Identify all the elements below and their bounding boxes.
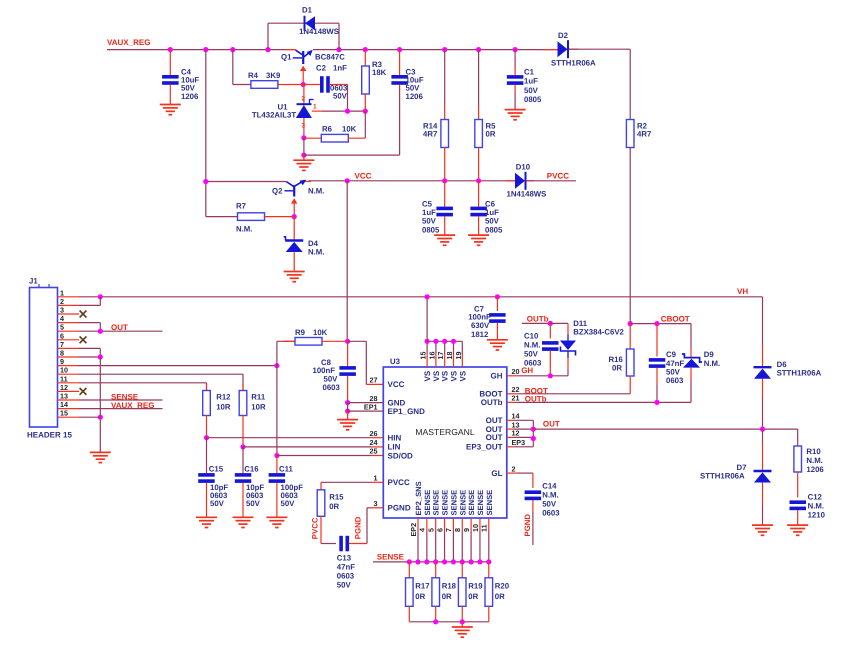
svg-text:EP3_OUT: EP3_OUT [466,443,503,452]
wire U1 pin1 to R3 bottom [312,110,322,112]
svg-text:7: 7 [444,528,453,532]
shunt reference U1 TL432 [303,85,305,104]
pin 10 of J1 [58,373,80,375]
svg-text:EP1_GND: EP1_GND [388,407,426,416]
svg-text:SENSE: SENSE [449,490,458,516]
svg-text:0805: 0805 [524,95,542,104]
svg-text:50V: 50V [281,499,296,508]
svg-text:SENSE: SENSE [458,490,467,516]
pin 11 of J1 [58,382,80,384]
svg-text:R4: R4 [248,71,259,80]
pin 7 SENSE of U3 [452,518,454,531]
ground under C6 [468,235,489,245]
diode D1 [267,23,269,49]
svg-text:OUT: OUT [486,433,503,442]
svg-text:C16: C16 [244,465,259,474]
svg-text:U3: U3 [390,357,401,366]
svg-text:VS: VS [432,370,441,381]
svg-text:EP3: EP3 [512,438,526,447]
wire R9 branch vertical [276,341,278,455]
ground under sense resistors [452,627,473,637]
pin 5 SENSE of U3 [435,518,437,531]
wire J1 pin1 to VH rail [79,296,100,298]
wire to Q2 branch [205,50,207,217]
svg-text:26: 26 [370,429,378,438]
wire pin9 to R9 node [79,365,277,367]
resistor R5 [478,50,480,106]
svg-text:0R: 0R [442,592,452,601]
svg-text:0805: 0805 [422,225,440,234]
svg-text:50V: 50V [333,92,348,101]
svg-text:R9: R9 [295,328,306,337]
svg-text:10K: 10K [313,328,328,337]
resistor R20 [488,562,490,578]
pin 5 of J1 [58,330,80,332]
ground under D7 [752,525,773,535]
svg-text:SD/OD: SD/OD [388,451,414,460]
svg-text:PVCC: PVCC [310,517,319,539]
svg-text:1812: 1812 [471,330,489,339]
wire pin4 to pin5 [79,322,100,324]
wire HIN [207,437,372,439]
svg-text:27: 27 [370,376,378,385]
svg-text:R16: R16 [609,355,624,364]
svg-text:14: 14 [512,412,520,421]
svg-text:VCC: VCC [355,171,372,180]
resistor R4 [278,84,304,86]
svg-text:1nF: 1nF [333,64,347,73]
resistor R14 [444,50,446,106]
capacitor C4 [169,50,171,76]
svg-text:3: 3 [374,499,378,508]
pin 4 SENSE of U3 [426,518,428,531]
svg-text:TL432AIL3T: TL432AIL3T [252,111,296,120]
pin 4 of J1 [58,322,80,324]
node R9 to C8 [345,339,350,344]
node Q1 collector [301,82,306,87]
svg-text:OUTb: OUTb [527,315,549,324]
net label PVCC [526,180,576,182]
svg-text:4: 4 [418,528,427,532]
svg-text:N.M.: N.M. [806,456,822,465]
resistor R17 [408,562,410,578]
ground under C1 [505,110,526,120]
svg-text:21: 21 [512,394,520,403]
svg-text:50V: 50V [210,499,225,508]
svg-text:10R: 10R [216,403,231,412]
svg-text:R11: R11 [251,393,266,402]
svg-text:VS: VS [441,370,450,381]
svg-text:BC847C: BC847C [315,52,345,61]
pin 19 VS of U3 [461,354,463,367]
svg-text:50V: 50V [524,349,539,358]
wire OUT rail [533,428,797,430]
svg-text:1N4148WS: 1N4148WS [299,27,339,36]
svg-text:15: 15 [60,409,68,418]
svg-text:PGND: PGND [523,514,532,537]
capacitor C6 [478,181,480,207]
svg-text:5: 5 [427,528,436,532]
pin EP2 EP2_SNS of U3 [417,518,419,531]
svg-text:STTH1R06A: STTH1R06A [551,58,596,67]
svg-text:R12: R12 [216,393,231,402]
diode D9 zener N.M. [690,324,692,348]
svg-text:OUT: OUT [486,416,503,425]
svg-text:C1: C1 [524,67,535,76]
node R12 bottom HIN [204,435,209,440]
pin 6 SENSE of U3 [444,518,446,531]
svg-text:STTH1R06A: STTH1R06A [777,369,822,378]
svg-text:18: 18 [445,352,454,360]
wire SD/OD [277,455,372,457]
resistor R6 [304,137,321,139]
svg-text:EP2: EP2 [409,523,418,537]
capacitor C1 [514,50,516,67]
svg-text:PVCC: PVCC [547,171,569,180]
pin 9 of J1 [58,365,80,367]
ground under C4 [160,105,181,115]
svg-text:17: 17 [436,352,445,360]
svg-text:1N4148WS: 1N4148WS [507,190,547,199]
svg-text:SENSE: SENSE [377,553,405,562]
svg-text:N.M.: N.M. [308,248,324,257]
svg-text:VS: VS [458,370,467,381]
svg-text:R15: R15 [329,493,344,502]
ground under C16 [233,517,254,527]
svg-text:50V: 50V [542,500,557,509]
diode D2 [558,41,568,57]
svg-text:47nF: 47nF [337,562,355,571]
svg-text:18K: 18K [372,68,387,77]
node U1 pin3 [301,135,306,140]
ground under C5 [434,235,455,245]
svg-text:0R: 0R [495,592,505,601]
pin 6 of J1 [58,339,80,341]
pin 7 of J1 [58,347,80,349]
wire OUTb top stub [522,322,550,324]
wire pin2 riser [79,304,100,306]
wire sense resistor return bus [409,621,489,623]
svg-text:GH: GH [491,372,503,381]
svg-text:HIN: HIN [388,434,402,443]
svg-text:0R: 0R [329,502,339,511]
pin 17 VS of U3 [444,354,446,367]
capacitor C14 N.M. [532,473,534,488]
svg-text:N.M.: N.M. [808,501,824,510]
node EP1 pin [345,409,350,414]
pin 16 VS of U3 [435,354,437,367]
svg-text:VH: VH [737,287,748,296]
capacitor C13 [321,543,336,545]
no-connect pin12 [80,388,87,395]
svg-text:VAUX_REG: VAUX_REG [107,38,150,47]
pin 13 of J1 [58,399,80,401]
wire PVCC pin1 [321,481,372,483]
svg-text:20: 20 [512,367,520,376]
svg-text:8: 8 [453,528,462,532]
svg-text:11: 11 [480,524,489,532]
svg-text:PGND: PGND [388,504,411,513]
svg-text:0603: 0603 [524,358,542,367]
wire R4 branch [232,50,234,85]
svg-text:EP1: EP1 [364,402,378,411]
wire VH rail [100,296,762,298]
svg-text:C10: C10 [524,331,539,340]
wire VS riser to VH [426,297,428,342]
capacitor C8 [347,341,349,367]
svg-text:0R: 0R [468,592,478,601]
svg-text:C2: C2 [316,64,327,73]
svg-text:0603: 0603 [666,376,684,385]
svg-text:D10: D10 [516,162,531,171]
wire OUTb net [507,401,518,403]
svg-text:1: 1 [374,474,378,483]
wire pin11 to R12 [79,382,207,384]
svg-text:OUT: OUT [111,323,128,332]
svg-text:10K: 10K [342,124,357,133]
svg-text:1: 1 [313,103,317,110]
pin 10 SENSE of U3 [479,518,481,531]
wire pin15 to ground riser [79,416,100,418]
wire pin8 ground riser [79,356,100,358]
resistor R16 [628,321,633,326]
wire GH net [507,375,518,377]
ground under J1 [90,452,111,462]
wire SENSE bus [373,561,489,563]
svg-text:4R7: 4R7 [637,129,651,138]
svg-text:R19: R19 [468,582,483,591]
svg-text:50V: 50V [337,580,352,589]
resistor R10 N.M. [797,429,799,446]
svg-text:6: 6 [435,528,444,532]
pin 2 of J1 [58,304,80,306]
node C8 bottom GND pin [345,400,350,405]
pin 15 VS of U3 [426,354,428,367]
resistor R7 N.M. [206,216,238,218]
svg-text:19: 19 [454,352,463,360]
svg-text:SENSE: SENSE [476,490,485,516]
svg-text:N.M.: N.M. [236,225,252,234]
pin 3 of J1 [58,313,80,315]
ground under C12 [787,525,808,535]
wire BOOT net [507,393,518,395]
svg-text:16: 16 [427,352,436,360]
svg-text:MASTERGANL: MASTERGANL [415,427,474,437]
svg-text:J1: J1 [29,277,38,286]
svg-text:4R7: 4R7 [423,129,437,138]
svg-text:0R: 0R [415,592,425,601]
resistor R19 [461,562,463,578]
svg-text:PVCC: PVCC [388,478,410,487]
svg-text:50V: 50V [246,499,261,508]
transistor Q2 N.M. [206,181,286,183]
diode D10 [506,180,515,182]
svg-text:OUTb: OUTb [481,398,503,407]
node R11 bottom LIN [240,444,245,449]
svg-text:0603: 0603 [337,571,355,580]
svg-text:12: 12 [512,429,520,438]
diode D4 N.M. [293,217,295,240]
no-connect pin6 [80,336,87,343]
capacitor C12 N.M. [790,500,807,504]
svg-text:0805: 0805 [485,225,503,234]
svg-text:N.M.: N.M. [704,359,720,368]
resistor R12 [206,384,208,391]
svg-text:0603: 0603 [323,383,341,392]
svg-text:PGND: PGND [354,516,363,539]
wire VH drop to D6 [762,297,764,345]
svg-text:C15: C15 [209,465,224,474]
op-amp U3 MASTERGAN1 body [383,367,507,518]
capacitor C7 [495,294,500,299]
svg-text:C12: C12 [808,492,823,501]
svg-text:D6: D6 [777,360,788,369]
svg-text:10R: 10R [251,403,266,412]
wire pin14 VAUX_REG stub [79,408,163,410]
svg-text:3K9: 3K9 [266,71,281,80]
svg-text:50V: 50V [524,86,539,95]
svg-text:R7: R7 [236,202,246,211]
svg-text:N.M.: N.M. [308,186,324,195]
node VAUX_REG junctions [168,47,173,52]
diode D11 zener [550,322,568,324]
resistor R15 [317,490,325,517]
node SD/OD junction [274,453,279,458]
pin 11 SENSE of U3 [488,518,490,531]
pin 8 SENSE of U3 [461,518,463,531]
wire pin7 to pin8 [79,347,100,349]
svg-text:SENSE: SENSE [467,490,476,516]
ground under C7 [487,340,508,350]
svg-text:2: 2 [302,96,306,103]
ground under C15 [196,517,217,527]
svg-text:Q1: Q1 [281,52,292,61]
wire VS bus [427,340,462,342]
pin 15 of J1 [58,416,80,418]
svg-text:R20: R20 [495,582,510,591]
wire VCC rail [309,180,348,182]
node Q2 base [292,214,297,219]
pin 14 of J1 [58,408,80,410]
svg-text:1206: 1206 [406,92,424,101]
wire VCC pin connection [348,340,367,342]
resistor R9 [277,340,295,342]
svg-text:HEADER 15: HEADER 15 [27,431,72,440]
capacitor C5 [444,181,446,207]
node VCC riser [346,181,348,341]
svg-text:2: 2 [512,464,516,473]
wire GL net [507,472,517,474]
resistor R11 [242,384,244,391]
svg-text:BZX384-C6V2: BZX384-C6V2 [573,327,624,336]
svg-text:N.M.: N.M. [524,340,540,349]
svg-text:D1: D1 [302,5,313,14]
svg-text:9: 9 [462,528,471,532]
wire C3 return [304,154,400,156]
ground under C11 [266,517,287,527]
wire VAUX_REG rail [107,49,296,51]
svg-text:25: 25 [370,447,378,456]
svg-text:SENSE: SENSE [485,490,494,516]
svg-text:OUT: OUT [543,420,560,429]
capacitor C9 [656,324,658,357]
capacitor C2 [303,84,320,86]
svg-text:VS: VS [423,370,432,381]
pin 18 VS of U3 [453,354,455,367]
svg-text:1206: 1206 [806,465,824,474]
wire D2 to R2 [569,48,630,50]
svg-text:D2: D2 [558,31,569,40]
svg-text:R18: R18 [442,582,457,591]
capacitor C10 N.M. [548,321,553,326]
svg-text:OUTb: OUTb [525,395,547,404]
resistor R3 [364,50,366,66]
svg-text:CBOOT: CBOOT [661,315,690,324]
svg-text:0603: 0603 [542,509,560,518]
svg-text:C14: C14 [542,482,557,491]
ground under U1 [303,138,305,155]
ground under C8 [337,420,358,430]
svg-text:Q2: Q2 [272,186,283,195]
svg-text:R17: R17 [415,582,429,591]
svg-text:0R: 0R [612,364,622,373]
resistor R2 [626,120,634,148]
svg-text:VS: VS [450,370,459,381]
svg-text:GL: GL [491,469,502,478]
pin 1 of J1 [58,296,80,298]
wire OUT net [514,419,533,421]
svg-text:R10: R10 [806,447,821,456]
svg-text:SENSE: SENSE [423,490,432,516]
wire pin13 SENSE stub [79,399,163,401]
svg-text:15: 15 [419,352,428,360]
svg-text:EP2_SNS: EP2_SNS [414,481,423,515]
svg-text:C11: C11 [279,465,294,474]
wire LIN [243,446,372,448]
svg-text:VAUX_REG: VAUX_REG [111,401,154,410]
pin 12 of J1 [58,390,80,392]
wire pin10 to R11 [79,373,243,375]
diode D7 [762,429,764,443]
svg-text:STTH1R06A: STTH1R06A [700,471,745,480]
wire CBOOT [630,323,691,325]
pin 8 of J1 [58,356,80,358]
svg-text:1210: 1210 [808,510,826,519]
svg-text:C13: C13 [337,553,352,562]
svg-text:3: 3 [302,123,306,130]
svg-text:10: 10 [471,524,480,532]
ground under D4 [284,272,305,282]
svg-text:0R: 0R [486,129,496,138]
capacitor C3 [399,50,401,76]
resistor R18 [435,562,437,578]
svg-text:SENSE: SENSE [432,490,441,516]
svg-text:R6: R6 [322,124,333,133]
svg-text:1uF: 1uF [524,77,538,86]
svg-text:VCC: VCC [388,380,405,389]
svg-text:1206: 1206 [181,92,199,101]
wire pin5 OUT stub [79,330,163,332]
no-connect pin3 [80,311,87,318]
svg-text:SENSE: SENSE [441,490,450,516]
wire rail red nubs at Q1 [286,49,296,51]
diode D6 [762,345,764,367]
wire PGND pin3 [366,508,368,544]
svg-text:N.M.: N.M. [542,491,558,500]
pin 9 SENSE of U3 [470,518,472,531]
